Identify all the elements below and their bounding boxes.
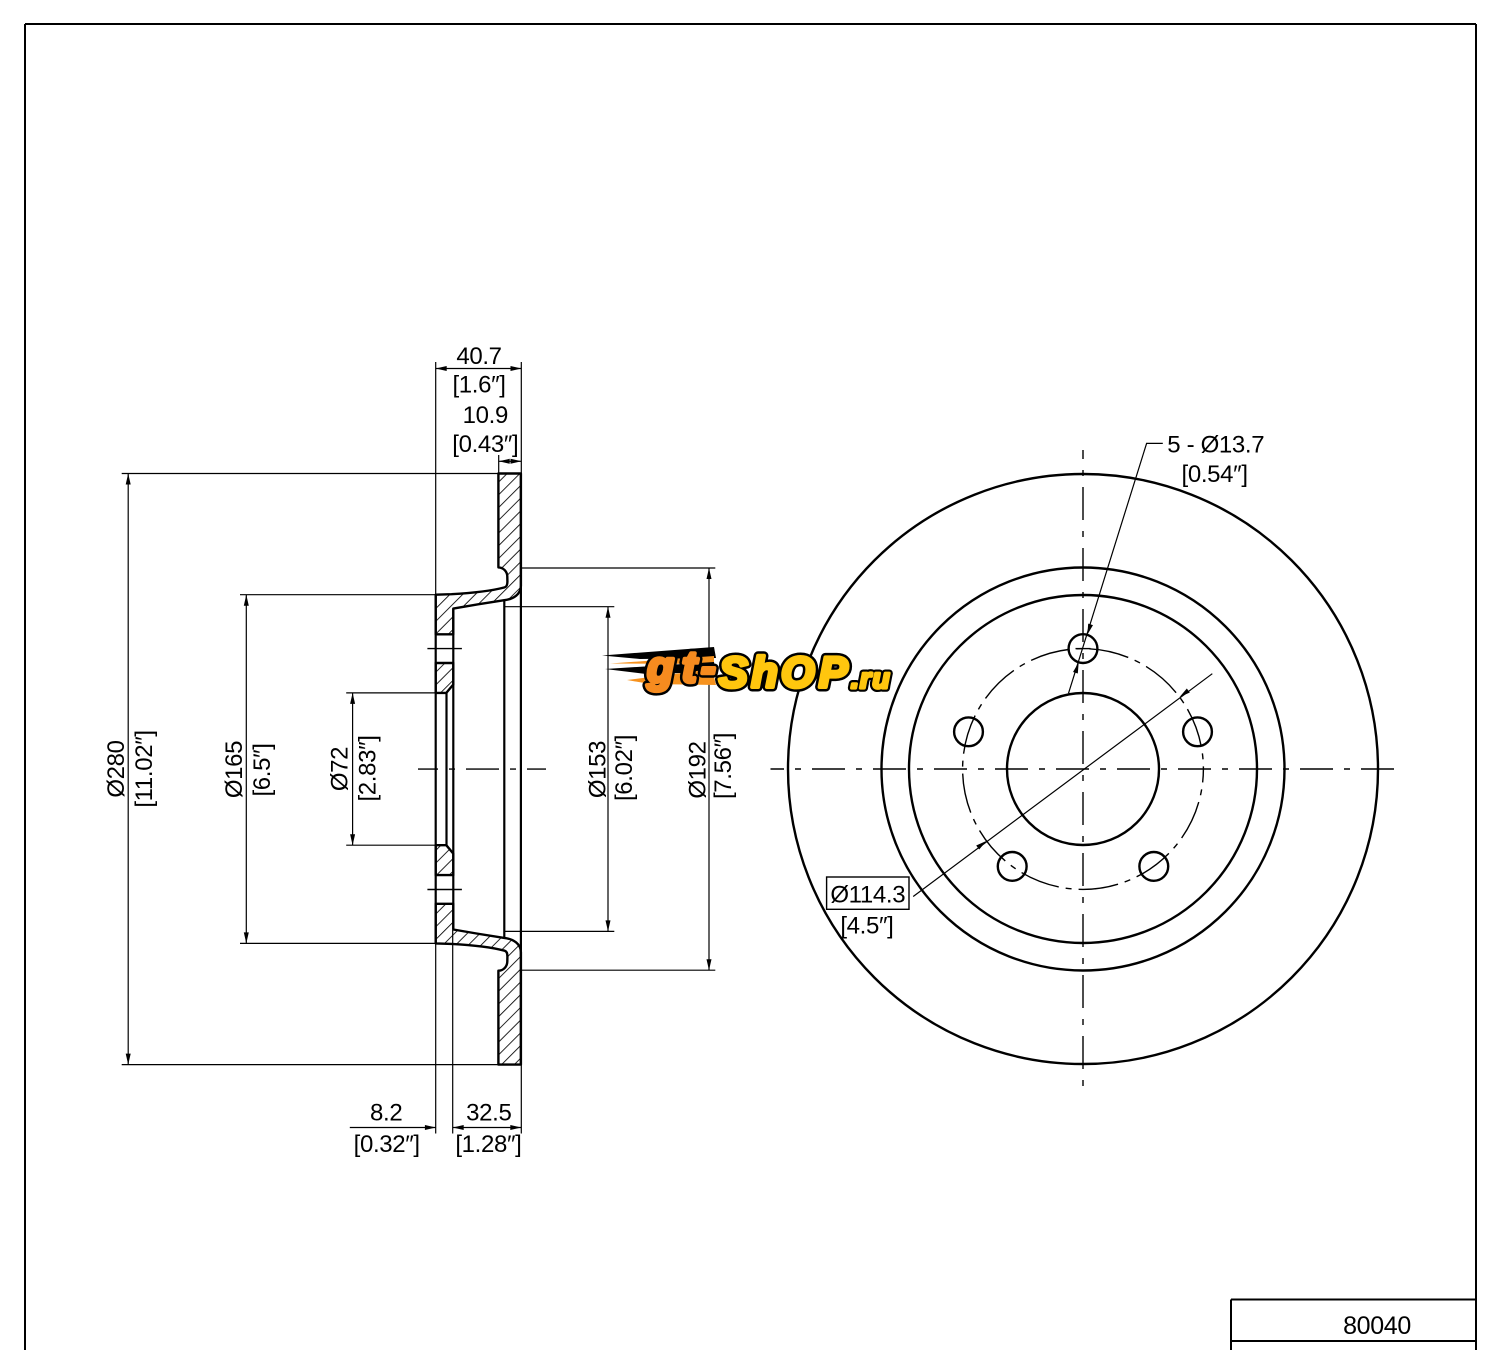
svg-text:[2.83″]: [2.83″] [355,735,382,801]
section hatched region lower flange strip below bolt hole (mirror of r2) [436,845,454,875]
extension line hub face lower [452,930,454,1134]
extension line D72 top [346,692,436,694]
outboard friction face background edge [520,474,522,1065]
vertical centerline [1082,450,1084,1088]
logo text colour layer [647,653,715,691]
extension line D280 top [122,473,499,475]
extension line 8.2 left lower [435,943,437,1133]
section hatched region upper (ring + cone + flange above bolt hole) [436,474,521,635]
extension line D72 bottom [346,844,436,846]
svg-text:[6.5″]: [6.5″] [249,743,276,796]
svg-text:Ø153: Ø153 [585,741,612,798]
svg-text:Ø114.3: Ø114.3 [830,882,905,909]
svg-text:10.9: 10.9 [463,402,508,429]
extension line 40.7 left / mounting face [435,362,437,595]
svg-text:[11.02″]: [11.02″] [131,730,158,807]
svg-text:[1.28″]: [1.28″] [455,1131,521,1158]
dimension D280 [103,474,158,1065]
dimension 8.2 [350,1100,464,1158]
svg-text:[4.5″]: [4.5″] [840,913,893,940]
dimension D165 [221,595,276,944]
extension line D192 top [522,567,716,569]
section hatched region upper flange strip below bolt hole [436,663,454,693]
speed line spike orange lower [627,669,716,685]
svg-text:5 - Ø13.7: 5 - Ø13.7 [1167,431,1264,458]
hub face edge [452,609,454,930]
svg-text:32.5: 32.5 [466,1100,511,1127]
dimension 40.7 [436,343,522,399]
inner cone background edge [503,600,505,938]
extension line D192 bottom [522,969,716,971]
svg-text:Ø192: Ø192 [685,741,712,798]
title block [1231,1300,1476,1350]
gt-shop.ru watermark logo [602,647,889,691]
svg-text:[0.54″]: [0.54″] [1182,461,1248,488]
svg-text:Ø72: Ø72 [327,747,354,791]
extension line 32.5 right lower [520,1065,522,1134]
extension line D153 bottom [504,930,614,932]
speed line spike orange [610,656,714,664]
svg-text:80040: 80040 [1343,1312,1411,1340]
bolt hole left-upper [954,717,983,746]
section hatched region lower (mirror of r1) [436,904,521,1065]
bolt hole centerline tick upper [427,648,462,650]
bore chamfer circle edge [445,693,447,845]
dimension 10.9 [452,402,521,464]
logo text black outline layer [647,653,889,691]
svg-text:[6.02″]: [6.02″] [611,735,638,801]
circle D165 [909,595,1257,943]
bolt circle diameter dimension D114.3 [827,674,1213,940]
svg-text:[0.32″]: [0.32″] [354,1131,420,1158]
circle D192 [882,568,1285,971]
speed line spike top (black) [602,647,716,659]
leader 5-D13.7 [1069,431,1265,693]
section centerline [418,768,546,770]
bolt hole centerline tick lower [427,889,462,891]
extension line D165 top [240,594,436,596]
visible edges (section silhouette lines) [436,474,521,1065]
extension lines [122,362,716,1134]
extension line D165 bottom [240,942,436,944]
bolt circle D114.3 (dash-dot) [963,649,1204,890]
bolt hole right-lower [1139,852,1168,881]
extension line 40.7 right [520,362,522,474]
dimension 32.5 [453,1100,522,1158]
svg-text:8.2: 8.2 [370,1100,402,1127]
bolt hole left-lower [998,852,1027,881]
speed line spike middle (black) [605,662,716,674]
extension line D153 top [504,606,614,608]
dimension D153 [585,607,639,932]
dimension D192 [685,568,738,970]
svg-text:[7.56″]: [7.56″] [710,733,737,799]
extension line D280 bottom [122,1064,499,1066]
top bolt hole tick [1076,648,1091,650]
bolt hole right-upper [1183,717,1212,746]
horizontal centerline [771,768,1396,770]
svg-text:Ø280: Ø280 [103,740,130,797]
svg-text:[0.43″]: [0.43″] [452,431,518,458]
extension line 10.9 left [498,455,500,474]
bolt hole top [1069,634,1098,663]
svg-text:40.7: 40.7 [456,343,501,370]
bore circle D72 [1007,693,1159,845]
dimension D72 [327,693,382,845]
outer circle D280 [788,474,1378,1064]
mounting face edge [435,595,437,944]
svg-text:Ø165: Ø165 [221,741,248,798]
svg-text:[1.6″]: [1.6″] [452,372,505,399]
